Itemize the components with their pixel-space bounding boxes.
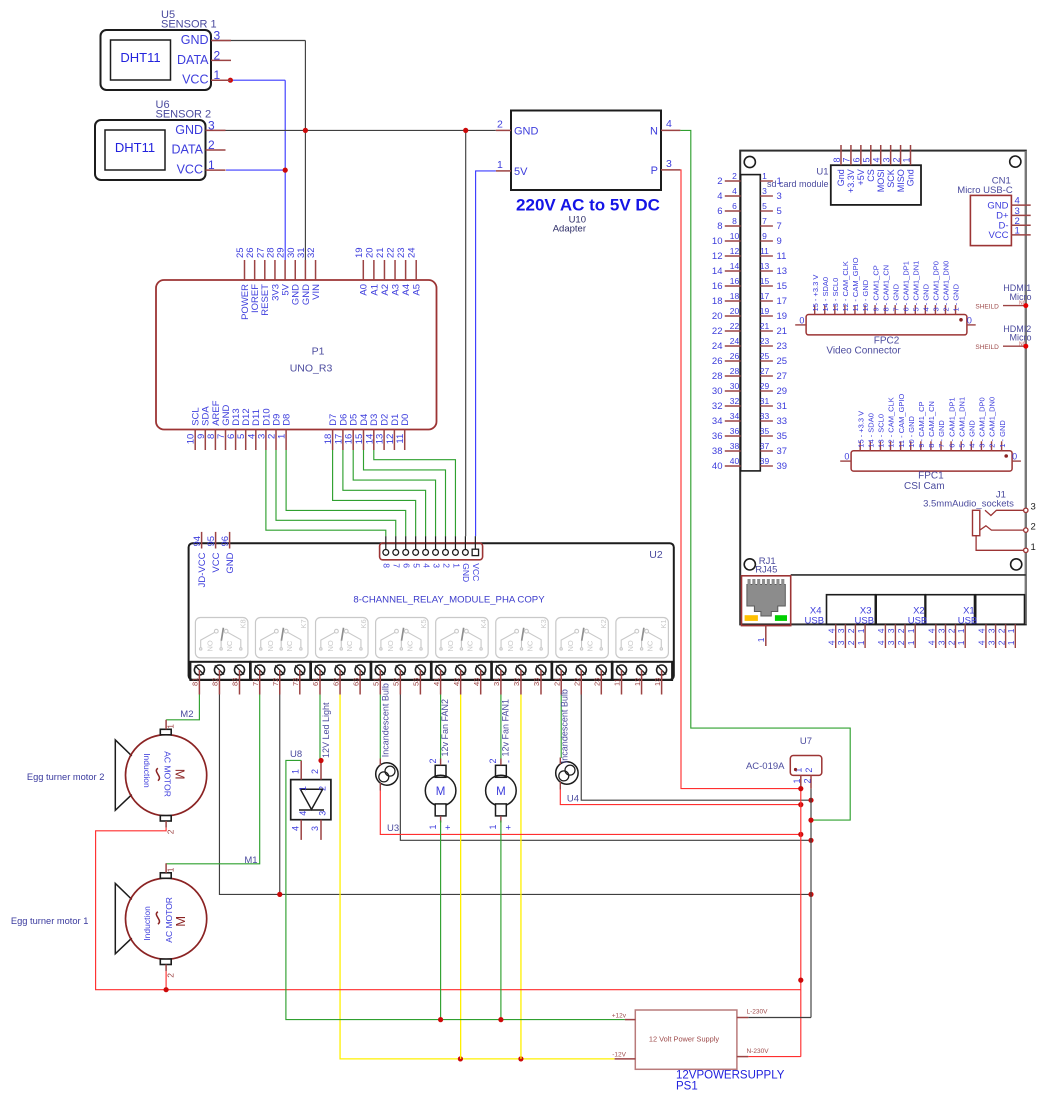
relay K4 symbol — [436, 618, 489, 658]
FPC1 pin 2 — [988, 397, 997, 451]
svg-text:NC: NC — [525, 640, 534, 651]
svg-text:4: 4 — [876, 640, 886, 645]
svg-text:Adapter: Adapter — [553, 224, 586, 235]
USB connector X1 — [958, 595, 1025, 627]
svg-text:10: 10 — [730, 231, 740, 241]
svg-text:K8: K8 — [239, 619, 248, 628]
relay terminal block 81/82/83 — [190, 662, 250, 695]
svg-text:33: 33 — [760, 411, 770, 421]
GPIO pin 38 — [712, 441, 741, 457]
svg-text:21: 21 — [777, 326, 788, 337]
GPIO pin 30 — [712, 381, 741, 397]
wire fan FAN2 pin1 to +12V (green) — [438, 821, 443, 1023]
svg-text:1: 1 — [906, 628, 916, 633]
wire D3 to relay IN1 (green) — [374, 450, 456, 536]
wire U7 pin1 net (red) down to PS1 N-230V — [748, 786, 803, 1057]
svg-text:Induction: Induction — [142, 753, 152, 788]
svg-text:26: 26 — [712, 356, 723, 367]
svg-text:2: 2 — [165, 973, 175, 978]
svg-text:2: 2 — [802, 778, 812, 783]
svg-text:1: 1 — [277, 434, 288, 439]
GPIO pin 22 — [712, 321, 741, 337]
svg-text:1: 1 — [856, 640, 866, 645]
svg-text:15 - +3.3 V: 15 - +3.3 V — [856, 411, 865, 448]
relay terminal block 71/72/73 — [251, 662, 311, 695]
svg-text:U1: U1 — [816, 167, 828, 178]
power supply PS1 12V — [612, 1009, 769, 1070]
sd card module U1 — [767, 165, 921, 205]
svg-text:K2: K2 — [599, 619, 608, 628]
GPIO pin 18 — [712, 291, 741, 307]
svg-text:K6: K6 — [359, 619, 368, 628]
mounting hole bottom-left — [744, 559, 755, 570]
svg-text:K1: K1 — [659, 619, 668, 628]
relay IN pin 6 — [402, 536, 412, 568]
svg-text:17: 17 — [760, 291, 770, 301]
svg-text:12: 12 — [730, 246, 740, 256]
svg-text:2: 2 — [441, 563, 451, 568]
svg-text:40: 40 — [730, 456, 740, 466]
svg-text:16: 16 — [730, 276, 740, 286]
svg-text:10 - GND: 10 - GND — [907, 415, 916, 447]
svg-text:AC-019A: AC-019A — [746, 761, 785, 772]
relay pin 94 JD-VCC — [192, 532, 208, 587]
UNO pin 31 GND — [296, 247, 312, 305]
raspberry pi board outline — [740, 151, 1026, 625]
wire U7 pin2 net (black) down to PS1 L-230V — [748, 789, 813, 1018]
svg-text:32: 32 — [730, 396, 740, 406]
svg-text:CSI Cam: CSI Cam — [904, 481, 945, 492]
svg-text:NO: NO — [566, 640, 575, 651]
GPIO pin 10 — [712, 231, 741, 247]
UNO pin 4 D11 — [246, 409, 262, 450]
UNO pin 32 VIN — [306, 247, 322, 299]
UNO pin 30 GND — [286, 247, 302, 305]
USB connector X4 — [805, 595, 876, 627]
UNO pin 25 POWER — [235, 247, 251, 319]
svg-text:4: 4 — [977, 640, 987, 645]
U1 pin 8 Gnd — [832, 145, 846, 186]
wire adapter 5V to relay VCC (blue) — [476, 171, 496, 536]
svg-text:8 - CAM1_CN: 8 - CAM1_CN — [881, 265, 890, 312]
GPIO pin 15 — [760, 276, 787, 292]
svg-text:CS: CS — [866, 169, 876, 182]
svg-text:4: 4 — [827, 628, 837, 633]
svg-text:4: 4 — [298, 811, 308, 816]
svg-text:Micro USB-C: Micro USB-C — [957, 185, 1013, 196]
sensor U5 wires: GND net to UNO pin31 — [211, 41, 305, 261]
X3 pin 1 — [906, 624, 916, 648]
svg-text:DATA: DATA — [177, 53, 209, 67]
svg-text:NO: NO — [266, 640, 275, 651]
sensor U6 SENSOR 2 — [95, 99, 226, 180]
relay module U2 8-channel — [189, 543, 674, 680]
svg-text:GND: GND — [225, 552, 236, 573]
relay K8 symbol — [195, 618, 248, 658]
svg-text:22: 22 — [712, 326, 723, 337]
svg-text:14: 14 — [712, 266, 723, 277]
arduino UNO_R3 P1 — [156, 280, 437, 430]
GPIO pin 7 — [760, 216, 781, 232]
svg-text:NC: NC — [646, 640, 655, 651]
GPIO pin 9 — [760, 231, 781, 247]
wire relay 41 to fan FAN2 (green) — [440, 695, 442, 759]
FPC2 pin 11 — [851, 257, 860, 314]
svg-text:38: 38 — [730, 441, 740, 451]
svg-text:P: P — [651, 165, 658, 177]
GPIO pin 40 — [712, 456, 741, 472]
UNO pin 26 IOREF — [245, 247, 261, 313]
svg-text:U3: U3 — [387, 823, 399, 834]
svg-text:MISO: MISO — [896, 169, 906, 192]
GPIO pin 13 — [760, 261, 787, 277]
FPC1 pin 3 — [978, 397, 987, 450]
U1 pin 6 +5V — [852, 145, 866, 185]
svg-text:U7: U7 — [800, 736, 812, 747]
relay IN pin VCC — [471, 536, 481, 581]
svg-text:38: 38 — [712, 446, 723, 457]
svg-text:Incandescent Bulb: Incandescent Bulb — [560, 689, 570, 763]
svg-text:4: 4 — [732, 186, 737, 196]
FPC2 pin 4 — [922, 283, 931, 314]
svg-text:1: 1 — [1015, 225, 1020, 236]
svg-text:36: 36 — [712, 431, 723, 442]
wire D10 to relay IN8 (green) — [266, 450, 386, 536]
svg-text:VIN: VIN — [311, 284, 322, 300]
wire fan FAN1 pin1 to +12V (green) — [498, 821, 503, 1023]
svg-text:U2: U2 — [649, 549, 663, 561]
svg-text:220V AC to 5V DC: 220V AC to 5V DC — [516, 196, 660, 215]
relay K7 symbol — [255, 618, 308, 658]
wire D4 to relay IN2 (green) — [364, 450, 446, 536]
FPC2 pin 3 — [932, 261, 941, 314]
svg-text:1: 1 — [956, 628, 966, 633]
U1 pin 4 MOSI — [872, 145, 886, 192]
HDMI2 micro port — [975, 324, 1031, 351]
svg-text:M2: M2 — [180, 709, 193, 720]
wire relay 81 to motor M2 pin1 (green) — [166, 695, 199, 720]
svg-text:5: 5 — [862, 157, 872, 162]
FPC connector FPC2 — [795, 315, 976, 335]
svg-text:40: 40 — [712, 461, 723, 472]
svg-text:NC: NC — [465, 640, 474, 651]
relay K6 symbol — [316, 618, 369, 658]
USB connector X3 — [855, 595, 925, 627]
svg-text:21: 21 — [375, 247, 386, 258]
svg-text:19: 19 — [760, 306, 770, 316]
svg-text:7: 7 — [392, 563, 402, 568]
svg-text:15: 15 — [760, 276, 770, 286]
svg-text:13 - SCL0: 13 - SCL0 — [831, 278, 840, 312]
GPIO pin 35 — [760, 426, 787, 442]
svg-text:51: 51 — [372, 678, 381, 686]
svg-text:A4: A4 — [401, 284, 412, 296]
svg-text:VCC: VCC — [211, 552, 222, 572]
svg-text:2: 2 — [846, 640, 856, 645]
svg-text:NO: NO — [506, 640, 515, 651]
GPIO pin 3 — [760, 186, 781, 202]
svg-text:NC: NC — [285, 640, 294, 651]
svg-text:11: 11 — [777, 251, 787, 262]
X2 pin 1 — [956, 624, 966, 648]
svg-text:Egg turner motor 1: Egg turner motor 1 — [11, 916, 89, 926]
U1 pin 7 +3.3V — [842, 145, 856, 193]
svg-text:3: 3 — [310, 826, 320, 831]
svg-text:3: 3 — [881, 157, 891, 162]
wire relay 51 to bulb U3 (green) — [379, 695, 381, 759]
mounting hole top-left — [744, 156, 755, 167]
svg-text:12: 12 — [712, 251, 723, 262]
svg-text:1 - GND: 1 - GND — [952, 283, 961, 311]
svg-text:NO: NO — [626, 640, 635, 651]
svg-text:NO: NO — [386, 640, 395, 651]
svg-text:2: 2 — [804, 768, 814, 773]
svg-text:12v Fan FAN1: 12v Fan FAN1 — [500, 699, 510, 757]
FPC2 pin 12 — [841, 261, 850, 314]
svg-text:Video Connector: Video Connector — [826, 345, 901, 356]
svg-text:11: 11 — [760, 246, 769, 256]
svg-text:35: 35 — [777, 431, 788, 442]
X1 pin 3 — [986, 624, 996, 648]
svg-text:+: + — [503, 825, 513, 830]
svg-text:37: 37 — [777, 446, 788, 457]
svg-text:3 - CAM1_DP0: 3 - CAM1_DP0 — [932, 261, 941, 311]
svg-text:23: 23 — [760, 336, 770, 346]
svg-text:27: 27 — [760, 366, 770, 376]
svg-text:12 - CAM_CLK: 12 - CAM_CLK — [887, 397, 896, 447]
svg-text:UNO_R3: UNO_R3 — [290, 363, 333, 375]
svg-text:9 - CAM1_CP: 9 - CAM1_CP — [917, 401, 926, 447]
svg-text:K3: K3 — [539, 619, 548, 628]
svg-text:1: 1 — [1031, 542, 1036, 553]
svg-text:15: 15 — [777, 281, 788, 292]
svg-text:32: 32 — [306, 247, 317, 258]
svg-text:5: 5 — [762, 201, 767, 211]
svg-text:K7: K7 — [299, 619, 308, 628]
svg-text:2: 2 — [846, 628, 856, 633]
wire adapter P to U7 pin1 (red) — [680, 170, 800, 789]
svg-text:96: 96 — [220, 536, 231, 547]
svg-text:6 - CAM1_DP1: 6 - CAM1_DP1 — [947, 397, 956, 447]
wire relay 22 to 230V line (black) — [581, 695, 813, 803]
svg-text:29: 29 — [777, 386, 788, 397]
FPC2 pin 6 — [901, 261, 910, 314]
svg-text:3: 3 — [886, 628, 896, 633]
FPC1 pin 8 — [927, 401, 936, 451]
svg-text:6 - CAM1_DP1: 6 - CAM1_DP1 — [901, 261, 910, 311]
FPC2 pin 2 — [942, 261, 951, 315]
svg-text:39: 39 — [777, 461, 788, 472]
svg-text:DATA: DATA — [172, 143, 204, 157]
svg-text:0: 0 — [1012, 452, 1017, 462]
svg-text:3: 3 — [666, 158, 672, 170]
UNO pin 13 D2 — [375, 414, 391, 450]
svg-text:VCC: VCC — [988, 230, 1008, 241]
UNO pin 8 AREF — [206, 400, 222, 450]
fan motor FAN2 — [425, 758, 456, 830]
X1 pin 1 — [1006, 624, 1016, 648]
svg-text:3: 3 — [886, 640, 896, 645]
svg-text:20: 20 — [364, 247, 375, 258]
FPC2 pin 8 — [881, 265, 890, 315]
relay IN pin 4 — [421, 536, 431, 568]
svg-text:2: 2 — [996, 640, 1006, 645]
svg-text:1: 1 — [1006, 640, 1016, 645]
relay IN pin 7 — [392, 536, 402, 568]
svg-text:2: 2 — [318, 786, 328, 791]
label FPC2 Video Connector — [826, 336, 901, 357]
svg-text:1: 1 — [290, 769, 300, 774]
FPC1 pin 5 — [957, 397, 966, 451]
svg-text:4: 4 — [977, 628, 987, 633]
wire adapter N to U7 pin2 (green) — [680, 130, 850, 820]
GPIO pin 1 — [760, 171, 781, 187]
svg-text:12V Led Light: 12V Led Light — [321, 702, 331, 758]
GPIO 40-pin header body — [741, 175, 761, 471]
GPIO pin 25 — [760, 351, 787, 367]
svg-text:14 - SDA0: 14 - SDA0 — [821, 277, 830, 312]
FPC1 pin 4 — [968, 420, 977, 451]
FPC connector FPC1 — [840, 451, 1021, 471]
micro USB-C CN1 — [957, 176, 1013, 246]
svg-text:25: 25 — [760, 351, 770, 361]
svg-text:7: 7 — [777, 221, 782, 232]
CN1 pin 4 GND — [987, 196, 1030, 212]
svg-text:0: 0 — [967, 316, 972, 326]
label FPC1 CSI Cam — [904, 471, 945, 493]
svg-text:1 - GND: 1 - GND — [998, 420, 1007, 448]
svg-text:A1: A1 — [369, 284, 380, 296]
FPC2 pin 10 — [861, 279, 870, 314]
svg-text:A0: A0 — [359, 284, 370, 296]
svg-text:AC MOTOR: AC MOTOR — [163, 751, 173, 797]
svg-text:34: 34 — [730, 411, 740, 421]
UNO pin 23 A4 — [396, 247, 412, 295]
svg-text:2: 2 — [732, 171, 737, 181]
fan motor FAN1 — [486, 758, 517, 830]
svg-text:20: 20 — [730, 306, 740, 316]
svg-text:3.5mmAudio_sockets: 3.5mmAudio_sockets — [923, 499, 1014, 510]
svg-text:NC: NC — [586, 640, 595, 651]
incandescent bulb U4 — [556, 758, 578, 790]
svg-text:42: 42 — [452, 678, 461, 686]
svg-text:9: 9 — [777, 236, 782, 247]
svg-text:2: 2 — [428, 758, 438, 763]
FPC1 pin 13 — [877, 414, 886, 451]
UNO pin 19 A0 — [354, 247, 370, 295]
GPIO pin 31 — [760, 396, 787, 412]
svg-text:4: 4 — [666, 118, 672, 130]
svg-text:M: M — [436, 786, 446, 798]
GPIO pin 20 — [712, 306, 741, 322]
mounting hole bottom-right — [1011, 559, 1022, 570]
svg-text:21: 21 — [552, 678, 561, 686]
GPIO pin 28 — [712, 366, 741, 382]
J1 pin 1 (sleeve) — [976, 536, 1036, 553]
relay terminal block 51/52/53 — [371, 662, 431, 695]
svg-text:8: 8 — [832, 157, 842, 162]
wire U8 pin1 to +12V (green) — [286, 760, 625, 1019]
svg-text:12: 12 — [633, 678, 642, 686]
relay IN pin 1 — [451, 536, 461, 568]
svg-text:83: 83 — [231, 678, 240, 686]
svg-text:USB: USB — [958, 616, 978, 627]
relay K2 symbol — [556, 618, 609, 658]
svg-text:53: 53 — [412, 678, 421, 686]
FPC2 pin 9 — [871, 265, 880, 314]
svg-text:19: 19 — [354, 247, 365, 258]
UNO pin 27 RESET — [255, 247, 271, 315]
GPIO pin 5 — [760, 201, 781, 217]
relay K1 symbol — [616, 618, 669, 658]
svg-text:1: 1 — [856, 628, 866, 633]
svg-text:8-CHANNEL_RELAY_MODULE_PHA COP: 8-CHANNEL_RELAY_MODULE_PHA COPY — [353, 595, 545, 606]
wire D7 to relay IN5 (green) — [333, 450, 416, 536]
svg-text:31: 31 — [492, 678, 501, 686]
GPIO pin 32 — [712, 396, 741, 412]
svg-text:+12v: +12v — [612, 1013, 627, 1020]
X1 pin 2 — [996, 624, 1006, 648]
svg-text:3: 3 — [431, 563, 441, 568]
svg-text:L-230V: L-230V — [747, 1009, 769, 1016]
X3 pin 4 — [876, 624, 886, 648]
GPIO pin 19 — [760, 306, 787, 322]
svg-text:1: 1 — [901, 157, 911, 162]
UNO pin 28 3V3 — [265, 247, 281, 300]
svg-text:8: 8 — [717, 221, 722, 232]
svg-text:U8: U8 — [290, 749, 302, 760]
UNO pin 15 D4 — [354, 414, 370, 450]
svg-text:13: 13 — [760, 261, 770, 271]
svg-text:4 - GND: 4 - GND — [968, 420, 977, 448]
svg-text:7: 7 — [842, 157, 852, 162]
svg-text:22: 22 — [730, 321, 740, 331]
svg-text:4: 4 — [927, 628, 937, 633]
adapter U10 220V AC to 5V DC — [496, 111, 681, 235]
svg-text:35: 35 — [760, 426, 770, 436]
GPIO pin 12 — [712, 246, 741, 262]
svg-text:5V: 5V — [514, 166, 528, 178]
FPC1 pin 15 — [856, 411, 865, 451]
svg-text:4: 4 — [927, 640, 937, 645]
GPIO pin 23 — [760, 336, 787, 352]
audio jack J1 3.5mm — [923, 490, 1014, 536]
UNO pin 5 D12 — [236, 408, 252, 450]
svg-text:22: 22 — [386, 247, 397, 258]
svg-text:2: 2 — [946, 628, 956, 633]
svg-text:SHEILD: SHEILD — [975, 303, 999, 310]
svg-text:13: 13 — [777, 266, 788, 277]
J1 pin 2 (ring) — [980, 522, 1036, 533]
svg-text:13: 13 — [653, 678, 662, 686]
svg-text:7 - GND: 7 - GND — [937, 420, 946, 448]
svg-text:2: 2 — [896, 628, 906, 633]
svg-text:1: 1 — [165, 867, 175, 872]
GPIO pin 21 — [760, 321, 787, 337]
UNO pin 24 A5 — [407, 247, 423, 295]
svg-text:+5V: +5V — [856, 169, 866, 185]
svg-text:29: 29 — [760, 381, 770, 391]
svg-text:-: - — [503, 760, 513, 763]
svg-text:7: 7 — [762, 216, 767, 226]
wire relay 21 to bulb U4 (green) — [560, 695, 562, 759]
X4 pin 2 — [846, 624, 856, 648]
svg-text:13 - SCL0: 13 - SCL0 — [877, 414, 886, 448]
svg-text:SENSOR 2: SENSOR 2 — [156, 109, 212, 121]
FPC1 pin 11 — [897, 393, 906, 450]
svg-text:2: 2 — [717, 176, 722, 187]
relay K5 symbol — [376, 618, 429, 658]
